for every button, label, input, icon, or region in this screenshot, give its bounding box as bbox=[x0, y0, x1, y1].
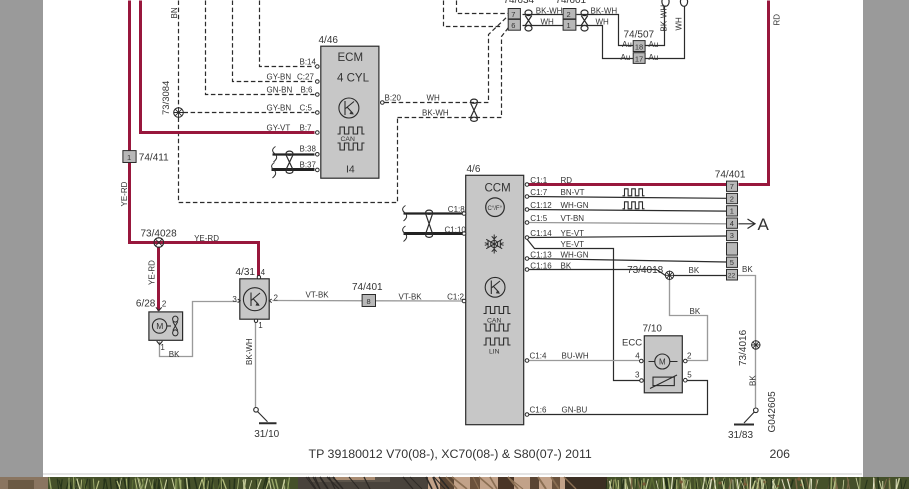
wire WH-GN C1:12 bbox=[529, 210, 727, 212]
wire to ECM B:14 bbox=[260, 1, 315, 67]
svg-text:1: 1 bbox=[160, 343, 165, 352]
wire BN-VT C1:7 bbox=[529, 197, 727, 199]
wire VT-BN C1:5 gray bbox=[529, 223, 727, 224]
svg-text:WH: WH bbox=[541, 18, 555, 27]
svg-text:73/4016: 73/4016 bbox=[738, 329, 749, 366]
wire dashed to connector pin 7 top bbox=[457, 1, 509, 14]
wire GY-BN to ECM C:27 bbox=[233, 1, 315, 82]
svg-text:YE-RD: YE-RD bbox=[194, 234, 219, 243]
wire WH-GN C1:13 bbox=[529, 259, 727, 263]
svg-text:C1:10: C1:10 bbox=[445, 225, 467, 234]
svg-text:2: 2 bbox=[730, 194, 734, 203]
arrow A at pin 4 bbox=[739, 215, 770, 234]
svg-text:2: 2 bbox=[274, 294, 279, 303]
svg-text:Au: Au bbox=[622, 40, 632, 49]
svg-text:BK-WH: BK-WH bbox=[660, 5, 669, 32]
svg-text:5: 5 bbox=[730, 258, 734, 267]
svg-text:C1:13: C1:13 bbox=[530, 251, 552, 260]
svg-text:M: M bbox=[156, 321, 163, 331]
svg-text:18: 18 bbox=[635, 42, 643, 51]
svg-text:74/401: 74/401 bbox=[352, 282, 383, 293]
svg-text:C1:12: C1:12 bbox=[530, 201, 552, 210]
wire dashed to connector pin 6 top bbox=[444, 1, 501, 27]
svg-text:WH: WH bbox=[427, 93, 441, 102]
twisted pair symbol WH/BK-WH dashed pair bbox=[471, 99, 478, 121]
wire YE-VT branch to ECC pin 3 bbox=[527, 239, 641, 381]
wire BN dashed vertical to splice 73/3084 bbox=[178, 1, 180, 108]
svg-text:74/634: 74/634 bbox=[504, 0, 535, 6]
twisted pair symbol after connector 2/1 bbox=[581, 10, 588, 31]
svg-text:BK-WH: BK-WH bbox=[536, 6, 563, 15]
svg-text:7: 7 bbox=[511, 10, 515, 19]
svg-text:5: 5 bbox=[687, 371, 692, 380]
svg-text:C°/F°: C°/F° bbox=[488, 206, 503, 212]
svg-text:Au: Au bbox=[621, 53, 631, 62]
twisted pair symbol C1:8/C1:10 bbox=[426, 210, 433, 237]
wire GY-BN to ECM C:5 bbox=[184, 112, 315, 114]
svg-text:3: 3 bbox=[730, 231, 734, 240]
cable curl B:38 bbox=[273, 147, 277, 163]
svg-text:ECC: ECC bbox=[622, 338, 642, 349]
svg-text:73/4018: 73/4018 bbox=[627, 265, 664, 276]
svg-text:C1:16: C1:16 bbox=[530, 262, 552, 271]
svg-text:RD: RD bbox=[561, 176, 573, 185]
svg-text:VT-BK: VT-BK bbox=[306, 291, 330, 300]
CCM electronic-unit symbol (circle K) bbox=[485, 277, 505, 297]
svg-text:TP 39180012 V70(08-), XC70(08-: TP 39180012 V70(08-), XC70(08-) & S80(07… bbox=[309, 447, 592, 461]
svg-text:B:37: B:37 bbox=[300, 160, 317, 169]
connector cell 6 (top) bbox=[508, 19, 520, 30]
wire WH from pin 1 to 74/507 pin 17 bbox=[577, 26, 634, 59]
svg-text:LIN: LIN bbox=[489, 349, 500, 356]
connector 74/401 column bbox=[727, 181, 738, 280]
cable curl B:37 bbox=[272, 163, 276, 179]
svg-text:VT-BN: VT-BN bbox=[561, 214, 585, 223]
svg-text:C1:6: C1:6 bbox=[530, 406, 547, 415]
svg-text:1: 1 bbox=[127, 153, 131, 162]
svg-text:8: 8 bbox=[367, 297, 371, 306]
svg-text:4 CYL: 4 CYL bbox=[337, 73, 370, 85]
svg-text:BK: BK bbox=[689, 266, 700, 275]
cable curl C1:10 bbox=[403, 226, 407, 242]
twisted pair symbol top right (partial) bbox=[662, 0, 688, 6]
svg-text:GN-BN: GN-BN bbox=[267, 85, 293, 94]
svg-text:GY-VT: GY-VT bbox=[267, 123, 291, 132]
svg-text:G042605: G042605 bbox=[767, 391, 778, 433]
svg-text:CAN: CAN bbox=[487, 317, 501, 324]
ECC unit 7/10 bbox=[640, 336, 688, 393]
svg-text:C1:4: C1:4 bbox=[530, 352, 547, 361]
svg-text:BN-VT: BN-VT bbox=[561, 188, 585, 197]
svg-text:BK-WH: BK-WH bbox=[422, 108, 449, 117]
svg-text:M: M bbox=[659, 358, 666, 367]
svg-text:206: 206 bbox=[770, 447, 791, 461]
CCM snowflake symbol bbox=[485, 235, 504, 254]
splice 73/4016 bbox=[751, 340, 761, 350]
svg-text:7: 7 bbox=[730, 182, 734, 191]
svg-text:2: 2 bbox=[162, 300, 167, 309]
wire GN-BN to ECM B:6 bbox=[206, 1, 315, 95]
red wire YE-RD left vertical to 4/31 bbox=[130, 1, 259, 277]
splice 73/4018 bbox=[665, 271, 675, 281]
svg-text:C:5: C:5 bbox=[300, 103, 313, 112]
svg-text:Au: Au bbox=[649, 53, 659, 62]
wire BK-WH solid between connectors 7 and 2 bbox=[523, 14, 564, 16]
svg-text:BK: BK bbox=[169, 350, 180, 359]
svg-text:BN: BN bbox=[170, 7, 179, 18]
svg-text:31/83: 31/83 bbox=[728, 430, 753, 441]
CCM temperature symbol bbox=[486, 198, 505, 217]
connector cell 1 (top) bbox=[563, 19, 576, 30]
svg-text:BK-WH: BK-WH bbox=[245, 338, 254, 365]
fan motor 6/28 bbox=[149, 307, 183, 344]
svg-text:GY-BN: GY-BN bbox=[267, 103, 292, 112]
ECM pins bbox=[316, 65, 385, 172]
svg-text:73/4028: 73/4028 bbox=[141, 229, 178, 240]
wire VT-BK gray from 4/31 pin 2 to CCM C1:2 bbox=[273, 300, 463, 303]
svg-text:C:27: C:27 bbox=[297, 72, 314, 81]
svg-text:4/46: 4/46 bbox=[319, 35, 339, 46]
svg-text:YE-VT: YE-VT bbox=[561, 240, 585, 249]
ground 31/10 bbox=[254, 408, 277, 424]
svg-text:ECM: ECM bbox=[338, 52, 364, 64]
svg-text:BK: BK bbox=[742, 265, 753, 274]
svg-text:BK-WH: BK-WH bbox=[591, 6, 618, 15]
svg-text:4/31: 4/31 bbox=[236, 267, 256, 278]
svg-text:B:14: B:14 bbox=[300, 57, 317, 66]
svg-text:WH: WH bbox=[596, 18, 610, 27]
svg-text:GY-BN: GY-BN bbox=[267, 72, 292, 81]
connector 74/411 (pin 1) bbox=[123, 151, 136, 163]
svg-text:B:20: B:20 bbox=[385, 93, 402, 102]
connector cell 7 (top) bbox=[508, 9, 520, 20]
svg-text:1: 1 bbox=[258, 321, 263, 330]
svg-text:C1:5: C1:5 bbox=[530, 214, 547, 223]
wire thick B:38 bbox=[273, 153, 315, 155]
wire WH solid between connectors 6 and 1 bbox=[523, 25, 564, 27]
wire dashed from splice down and right loop bbox=[179, 118, 398, 203]
svg-text:CAN: CAN bbox=[341, 136, 355, 143]
svg-text:4/6: 4/6 bbox=[467, 164, 481, 175]
svg-text:BK: BK bbox=[749, 375, 758, 386]
CCM LIN symbol bbox=[484, 338, 511, 345]
wire WH dashed from ECM B:20 bbox=[385, 16, 509, 103]
wire YE-VT C1:14 bbox=[529, 236, 727, 238]
svg-text:2: 2 bbox=[687, 351, 692, 360]
square wave symbol BN-VT bbox=[623, 189, 645, 196]
svg-text:6: 6 bbox=[511, 21, 515, 30]
wire from 74/507 pin 18 up bbox=[646, 7, 665, 46]
svg-text:74/601: 74/601 bbox=[556, 0, 587, 6]
relay 4/31 bbox=[238, 276, 272, 323]
svg-text:C1:2: C1:2 bbox=[447, 292, 464, 301]
svg-text:4: 4 bbox=[261, 268, 266, 277]
svg-text:B:6: B:6 bbox=[301, 85, 314, 94]
splice 73/3084 bbox=[174, 108, 184, 118]
svg-text:A: A bbox=[758, 215, 770, 234]
svg-text:1: 1 bbox=[730, 207, 734, 216]
svg-text:74/401: 74/401 bbox=[715, 170, 746, 181]
svg-text:C1:14: C1:14 bbox=[530, 229, 552, 238]
svg-text:1: 1 bbox=[567, 21, 571, 30]
wire thick B:37 bbox=[272, 168, 315, 171]
wire thick C1:8 bbox=[404, 212, 463, 214]
svg-text:BK: BK bbox=[561, 262, 572, 271]
svg-text:GN-BU: GN-BU bbox=[562, 406, 588, 415]
svg-text:6/28: 6/28 bbox=[136, 299, 156, 310]
PHOTO-STRIP bbox=[0, 477, 909, 489]
ECM CAN symbol bbox=[338, 127, 365, 150]
wire BK-WH from pin 2 to 74/507 pin 18 bbox=[577, 15, 634, 46]
CCM pins bbox=[462, 183, 529, 417]
wire BU-WH C1:4 gray bbox=[529, 360, 640, 362]
svg-text:31/10: 31/10 bbox=[254, 429, 279, 440]
wire BK C1:16 to splice 73/4018 and pin 22 bbox=[529, 270, 727, 276]
connector cell 2 (top) bbox=[563, 9, 576, 20]
wire BK-WH gray from 4/31 pin 1 to ground 31/10 bbox=[255, 323, 257, 408]
svg-text:VT-BK: VT-BK bbox=[399, 293, 423, 302]
svg-text:WH-GN: WH-GN bbox=[561, 251, 589, 260]
wire thick C1:10 bbox=[404, 232, 463, 235]
svg-text:22: 22 bbox=[728, 272, 736, 279]
svg-text:4: 4 bbox=[730, 219, 734, 228]
ECM control unit 4/46 bbox=[321, 46, 379, 178]
wire BK-WH dashed to ECM area bbox=[398, 28, 509, 118]
svg-text:4: 4 bbox=[635, 351, 640, 360]
svg-text:74/411: 74/411 bbox=[139, 153, 169, 164]
red wire to ECM B:7 bbox=[141, 1, 315, 133]
twisted pair symbol B:38/B:37 bbox=[286, 151, 293, 173]
splice 73/4028 bbox=[153, 238, 166, 248]
red wire RD right vertical to 74/401 pin 7 bbox=[739, 1, 769, 185]
CCM CAN symbol bbox=[484, 307, 511, 332]
connector 74/507 pin 18 bbox=[633, 41, 645, 52]
svg-text:I4: I4 bbox=[346, 164, 355, 176]
wire BK gray from splice 73/4018 to ECC pin 2 bbox=[670, 276, 708, 361]
twisted pair symbol between connectors 7/6 and 2/1 bbox=[525, 10, 532, 31]
svg-text:CCM: CCM bbox=[485, 182, 511, 194]
cable curl C1:8 bbox=[403, 206, 407, 222]
svg-text:C1:7: C1:7 bbox=[530, 188, 547, 197]
svg-text:WH-GN: WH-GN bbox=[561, 201, 589, 210]
svg-text:RD: RD bbox=[773, 14, 782, 26]
svg-text:3: 3 bbox=[635, 371, 640, 380]
svg-text:C1:8: C1:8 bbox=[448, 205, 465, 214]
svg-text:YE-RD: YE-RD bbox=[120, 181, 129, 206]
svg-text:7/10: 7/10 bbox=[643, 324, 663, 335]
CCM control unit 4/6 bbox=[466, 175, 524, 424]
svg-text:BK: BK bbox=[690, 307, 701, 316]
svg-text:B:7: B:7 bbox=[300, 123, 313, 132]
svg-text:C1:1: C1:1 bbox=[530, 176, 547, 185]
square wave symbol WH-GN bbox=[623, 202, 645, 209]
svg-text:73/3084: 73/3084 bbox=[161, 81, 172, 115]
svg-text:WH: WH bbox=[675, 17, 684, 31]
ground 31/83 bbox=[734, 408, 758, 425]
svg-text:3: 3 bbox=[232, 295, 237, 304]
wire from 74/507 pin 17 up bbox=[646, 7, 685, 59]
svg-text:17: 17 bbox=[635, 55, 643, 64]
svg-text:74/507: 74/507 bbox=[624, 30, 655, 41]
svg-text:YE-RD: YE-RD bbox=[148, 260, 157, 285]
svg-text:B:38: B:38 bbox=[300, 145, 317, 154]
red wire YE-RD branch to 6/28 bbox=[157, 243, 160, 311]
connector 74/401 pin 8 (inline) bbox=[362, 295, 375, 307]
svg-text:YE-VT: YE-VT bbox=[561, 229, 585, 238]
left gray sidebar bbox=[0, 0, 43, 477]
wire BK gray from 6/28 pin 1 to 4/31 pin 3 bbox=[160, 302, 238, 357]
wire BK gray from pin 22 to ground 31/83 bbox=[738, 276, 756, 408]
red wire RD C1:1 bbox=[529, 183, 727, 186]
page bottom edge line bbox=[43, 473, 862, 475]
svg-text:2: 2 bbox=[567, 10, 571, 19]
svg-text:BU-WH: BU-WH bbox=[562, 352, 589, 361]
wire GN-BU C1:6 to ECC pin 5 bbox=[529, 381, 708, 415]
connector 74/507 pin 17 bbox=[633, 53, 645, 64]
right gray sidebar bbox=[863, 0, 909, 478]
ECM electronic-unit symbol (circle K) bbox=[339, 98, 359, 118]
svg-text:Au: Au bbox=[649, 40, 659, 49]
